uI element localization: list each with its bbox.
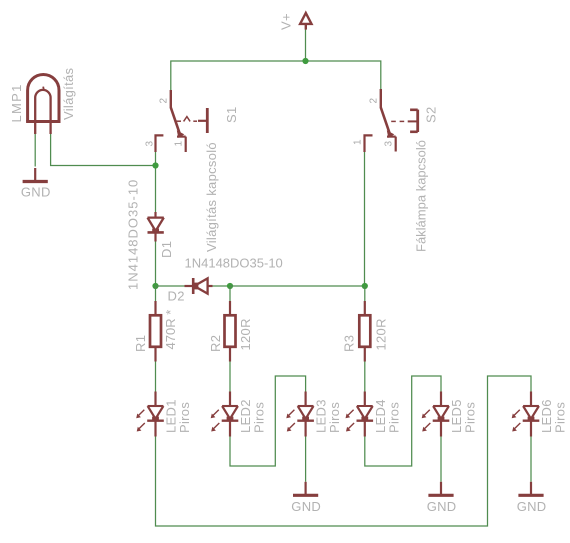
label R1 [133, 335, 148, 352]
resistor R3 [359, 301, 370, 362]
label LED5 [449, 399, 464, 433]
svg-text:D2: D2 [168, 289, 185, 304]
wire node C to R2 [229, 286, 231, 301]
svg-text:GND: GND [291, 499, 321, 514]
wire LED2 to LED3 (series link) [230, 376, 306, 466]
svg-text:3: 3 [384, 141, 395, 147]
svg-text:Piros: Piros [463, 402, 478, 433]
label S1 [224, 106, 239, 123]
wire lamp right leg to S1 pin3 node [51, 134, 156, 166]
svg-text:470R *: 470R * [163, 310, 178, 350]
wire LED4 to LED5 (series link) [365, 376, 441, 466]
diode D1 [148, 212, 164, 242]
svg-text:Piros: Piros [553, 402, 568, 433]
svg-text:LMP1: LMP1 [9, 83, 24, 122]
pin 1 label S1 [174, 141, 185, 147]
label 1N4148DO35-10 (D1 value) [126, 179, 141, 290]
svg-text:GND: GND [21, 185, 51, 200]
wire R2 to LED2 [229, 362, 231, 392]
LED LED1 [136, 392, 164, 437]
label Piros (LED3 value) [327, 402, 342, 433]
label D2 [168, 289, 185, 304]
svg-text:GND: GND [427, 499, 457, 514]
wire D2 to node C [213, 285, 231, 287]
svg-text:Piros: Piros [387, 402, 402, 433]
svg-text:GND: GND [517, 499, 547, 514]
label V+ [279, 13, 294, 30]
LED LED6 [512, 392, 540, 437]
svg-text:2: 2 [159, 98, 170, 104]
label 120R (R3 value) [374, 318, 389, 350]
svg-text:Fáklámpa kapcsoló: Fáklámpa kapcsoló [414, 140, 429, 252]
wire D1 to node B [155, 242, 157, 287]
resistor R2 [225, 301, 236, 362]
switch S2 [365, 89, 418, 152]
svg-text:Világítás kapcsoló: Világítás kapcsoló [204, 142, 219, 252]
label LED3 [314, 399, 329, 433]
svg-text:Piros: Piros [177, 402, 192, 433]
label R2 [208, 335, 223, 352]
LED LED5 [422, 392, 450, 437]
wire node B to D2 [156, 285, 185, 287]
wire node B to R1 [155, 286, 157, 301]
svg-text:1N4148DO35-10: 1N4148DO35-10 [185, 256, 283, 271]
wire LED5 to GND [440, 437, 442, 482]
wire LED6 to GND [530, 437, 532, 482]
label LED2 [238, 399, 253, 433]
junction node C (D2 / R2 / rail) [227, 283, 233, 289]
svg-text:2: 2 [369, 98, 380, 104]
label 1N4148DO35-10 (D2 value) [185, 256, 283, 271]
label LED4 [373, 399, 388, 433]
label Világítás kapcsoló (S1 value) [204, 142, 219, 252]
supply symbol V+ [300, 13, 311, 30]
wire node C to node D [230, 285, 365, 287]
wire V+ drop [305, 30, 307, 62]
LED LED4 [346, 392, 374, 437]
wire top rail from S1 to S2 [171, 61, 381, 90]
label LED1 [164, 399, 179, 433]
pin 3 label S2 [384, 141, 395, 147]
svg-text:3: 3 [145, 141, 156, 147]
label Fáklámpa kapcsoló (S2 value) [414, 140, 429, 252]
ground GND (LED6) [517, 482, 547, 514]
pin 2 label S2 [369, 98, 380, 104]
svg-text:Piros: Piros [327, 402, 342, 433]
svg-text:S2: S2 [424, 106, 439, 123]
junction node B (D1 / D2 / R1) [152, 283, 158, 289]
label LMP1 [9, 83, 24, 122]
label LED6 [539, 399, 554, 433]
wire LED3 to GND [305, 437, 307, 482]
svg-text:S1: S1 [224, 106, 239, 123]
label S2 [424, 106, 439, 123]
wire S2 pin1 down to node D [364, 152, 366, 286]
wire node D to R3 [364, 286, 366, 301]
wire S1 pin3 down to node A [155, 152, 157, 212]
pin 1 label S2 [353, 139, 364, 145]
label Piros (LED1 value) [177, 402, 192, 433]
svg-text:Piros: Piros [252, 402, 267, 433]
ground GND (LED3) [291, 482, 321, 514]
ground GND (LED5) [427, 482, 457, 514]
svg-text:1: 1 [174, 141, 185, 147]
svg-text:1: 1 [353, 139, 364, 145]
label D1 [159, 241, 174, 258]
label Piros (LED6 value) [553, 402, 568, 433]
ground GND (LMP1) [21, 168, 51, 200]
svg-text:Világítás: Világítás [61, 67, 76, 120]
svg-text:1N4148DO35-10: 1N4148DO35-10 [126, 179, 141, 290]
svg-text:R3: R3 [342, 335, 357, 352]
label 120R (R2 value) [238, 318, 253, 350]
lamp LMP1 [26, 75, 60, 134]
junction node A (lamp / S1.3 / D1) [152, 162, 158, 168]
label 470R * (R1 value) [163, 310, 178, 350]
wire LED1 to LED6 (series link, bottom run) [156, 376, 532, 526]
switch S1 [156, 90, 208, 152]
label Piros (LED5 value) [463, 402, 478, 433]
svg-text:120R: 120R [238, 318, 253, 350]
svg-text:D1: D1 [159, 241, 174, 258]
diode D2 [185, 278, 213, 294]
svg-text:V+: V+ [279, 13, 294, 30]
junction node D (S2.1 / rail / R3) [362, 283, 368, 289]
svg-text:R2: R2 [208, 335, 223, 352]
label Világítás (lamp value) [61, 67, 76, 120]
pin 3 label S1 [145, 141, 156, 147]
wire R1 to LED1 [155, 362, 157, 392]
svg-text:R1: R1 [133, 335, 148, 352]
junction top rail V+ [302, 58, 308, 64]
resistor R1 [150, 301, 161, 362]
pin 2 label S1 [159, 98, 170, 104]
LED LED3 [286, 392, 314, 437]
wire lamp left leg to GND [34, 134, 36, 167]
LED LED2 [211, 392, 239, 437]
wire R3 to LED4 [364, 362, 366, 392]
label R3 [342, 335, 357, 352]
label Piros (LED2 value) [252, 402, 267, 433]
svg-text:120R: 120R [374, 318, 389, 350]
label Piros (LED4 value) [387, 402, 402, 433]
